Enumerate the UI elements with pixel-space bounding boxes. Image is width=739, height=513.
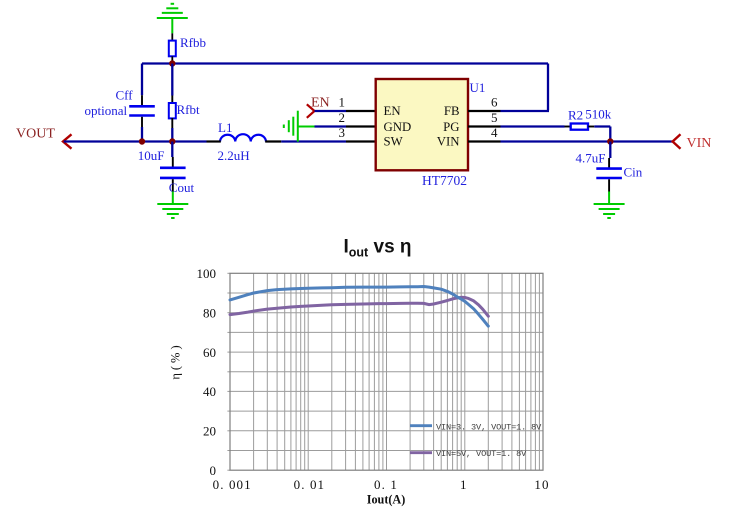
svg-text:6: 6: [491, 95, 498, 110]
label 2.2uH: [218, 148, 250, 163]
label L1: [218, 120, 232, 135]
port arrow VOUT: [63, 134, 72, 148]
svg-text:510k: 510k: [585, 106, 612, 121]
wire: feedback net horizontal: [142, 62, 548, 64]
pin number 5: [491, 110, 498, 125]
label 4.7uF: [576, 150, 606, 165]
svg-text:PG: PG: [443, 120, 459, 134]
svg-text:20: 20: [203, 424, 216, 439]
svg-text:10uF: 10uF: [138, 148, 165, 163]
pin number 6: [491, 95, 498, 110]
svg-text:40: 40: [203, 384, 216, 399]
svg-text:2.2uH: 2.2uH: [218, 148, 250, 163]
junction: Rfbb / feedback node: [169, 60, 175, 66]
x-axis tick labels: [213, 477, 550, 492]
y-axis tick labels: [197, 266, 217, 478]
chart plot border: [230, 273, 543, 470]
svg-text:optional: optional: [85, 103, 128, 118]
svg-text:0. 1: 0. 1: [374, 477, 398, 492]
port arrow EN: [307, 104, 315, 118]
legend entry VIN=3.3V: [410, 422, 542, 432]
pin 6 stub: [468, 110, 501, 112]
pin name EN: [384, 104, 401, 118]
resistor R2: [571, 124, 588, 130]
pin number 4: [491, 125, 498, 140]
ground (GND pin, rotated left): [284, 111, 315, 142]
svg-text:1: 1: [339, 95, 346, 110]
svg-text:2: 2: [339, 110, 346, 125]
wire: FB net: [501, 110, 550, 112]
svg-text:5: 5: [491, 110, 498, 125]
chart gridlines: [227, 273, 543, 470]
svg-text:HT7702: HT7702: [422, 173, 467, 188]
net label VIN: [687, 136, 712, 151]
wire: Cff top branch: [141, 64, 143, 106]
pin name VIN: [437, 135, 460, 149]
svg-text:VIN=3. 3V, VOUT=1. 8V: VIN=3. 3V, VOUT=1. 8V: [436, 422, 542, 432]
label Cff: [116, 88, 134, 103]
wire: feedback net vertical (right): [547, 64, 549, 111]
label 10uF: [138, 148, 165, 163]
curve VIN=5V VOUT=1.8V (purple): [230, 297, 488, 316]
svg-text:0: 0: [210, 463, 217, 478]
chart title Iout vs eta: [344, 237, 412, 260]
svg-text:L1: L1: [218, 120, 232, 135]
svg-text:VIN=5V, VOUT=1. 8V: VIN=5V, VOUT=1. 8V: [436, 449, 527, 459]
label Cin: [624, 165, 643, 180]
net label VOUT: [16, 126, 55, 141]
label Rfbt: [177, 102, 201, 117]
svg-text:3: 3: [339, 125, 346, 140]
svg-text:EN: EN: [311, 96, 330, 111]
wire: VOUT rail: [64, 140, 207, 142]
inductor L1: [220, 134, 266, 141]
capacitor Cout: [160, 142, 186, 192]
svg-text:Iout(A): Iout(A): [367, 493, 406, 507]
pin 2 stub: [346, 125, 376, 127]
capacitor Cin: [596, 142, 622, 192]
wire: GND net: [315, 125, 347, 127]
svg-text:VIN: VIN: [687, 136, 712, 151]
label Cout: [169, 180, 195, 195]
svg-text:R2: R2: [568, 108, 583, 123]
svg-text:Rfbb: Rfbb: [180, 35, 206, 50]
svg-text:1: 1: [460, 477, 468, 492]
junction: Rfbt-Cout / VOUT rail: [169, 138, 175, 144]
label 510k: [585, 106, 612, 121]
pin 3 stub: [346, 140, 376, 142]
wire: SW net (L1 to pin 3): [207, 140, 347, 142]
x-axis title Iout(A): [367, 493, 406, 507]
pin number 3: [339, 125, 346, 140]
IC U1 HT7702 body: [376, 79, 468, 170]
label optional: [85, 103, 128, 118]
pin name FB: [444, 104, 460, 118]
svg-text:GND: GND: [384, 120, 412, 134]
pin 4 stub: [468, 140, 501, 142]
svg-text:0. 01: 0. 01: [294, 477, 326, 492]
y-axis title eta(%): [169, 342, 183, 379]
label HT7702: [422, 173, 467, 188]
curve VIN=3.3V VOUT=1.8V (blue): [230, 287, 488, 327]
wire: R2 to junction: [588, 127, 610, 142]
svg-text:VIN: VIN: [437, 135, 460, 149]
svg-text:80: 80: [203, 306, 216, 321]
pin number 2: [339, 110, 346, 125]
label U1: [470, 80, 486, 95]
svg-text:SW: SW: [384, 135, 404, 149]
pin 5 stub: [468, 125, 501, 127]
svg-text:U1: U1: [470, 80, 486, 95]
resistor Rfbb: [169, 41, 176, 64]
svg-text:60: 60: [203, 345, 216, 360]
svg-text:Cff: Cff: [116, 88, 134, 103]
wire: EN net: [315, 110, 347, 112]
svg-text:10: 10: [534, 477, 549, 492]
pin name PG: [443, 120, 459, 134]
svg-text:4.7uF: 4.7uF: [576, 150, 606, 165]
wire: PG to R2: [501, 125, 571, 127]
svg-text:FB: FB: [444, 104, 460, 118]
svg-text:100: 100: [197, 266, 217, 281]
ground (below Cin): [594, 192, 625, 219]
label Rfbb: [180, 35, 206, 50]
port arrow VIN: [673, 134, 681, 148]
legend entry VIN=5V: [410, 449, 527, 459]
pin name GND: [384, 120, 412, 134]
resistor Rfbt: [169, 64, 176, 142]
junction: Cff / VOUT rail: [139, 138, 145, 144]
svg-text:0. 001: 0. 001: [213, 477, 252, 492]
svg-text:VOUT: VOUT: [16, 126, 55, 141]
ground (top, above Rfbb): [157, 4, 188, 41]
pin number 1: [339, 95, 346, 110]
svg-text:η(%): η(%): [169, 342, 183, 379]
junction: R2 / Cin / VIN rail: [607, 138, 613, 144]
wire: VIN rail: [501, 140, 673, 142]
svg-text:Cin: Cin: [624, 165, 643, 180]
net label EN: [311, 96, 330, 111]
capacitor Cff: [129, 106, 155, 141]
pin name SW: [384, 135, 404, 149]
label R2: [568, 108, 583, 123]
svg-text:EN: EN: [384, 104, 401, 118]
pin 1 stub: [346, 110, 376, 112]
ground (below Cout): [157, 192, 188, 219]
svg-text:Rfbt: Rfbt: [177, 102, 201, 117]
